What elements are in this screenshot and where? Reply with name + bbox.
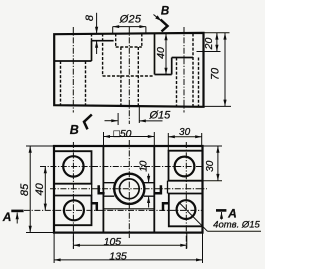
svg-text:В: В (70, 123, 79, 137)
svg-text:10: 10 (139, 160, 150, 172)
svg-text:30: 30 (205, 160, 216, 172)
svg-text:A: A (227, 207, 237, 221)
svg-text:85: 85 (19, 183, 31, 196)
svg-text:20: 20 (203, 38, 215, 51)
svg-text:Ø25: Ø25 (119, 13, 142, 25)
svg-text:A: A (2, 210, 12, 224)
svg-text:135: 135 (109, 250, 127, 262)
svg-text:70: 70 (210, 67, 222, 80)
svg-text:Ø15: Ø15 (149, 109, 172, 121)
svg-text:8: 8 (84, 14, 96, 21)
svg-text:40: 40 (155, 47, 167, 59)
svg-text:40: 40 (34, 182, 46, 195)
svg-text:4отв. Ø15: 4отв. Ø15 (213, 220, 260, 231)
svg-text:30: 30 (179, 127, 191, 138)
svg-text:В: В (161, 6, 169, 18)
svg-text:□50: □50 (113, 128, 131, 140)
svg-text:105: 105 (104, 236, 122, 248)
